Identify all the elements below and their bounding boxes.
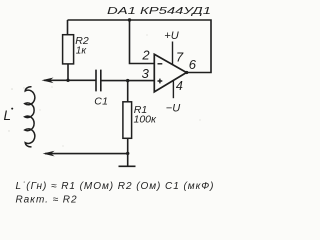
wire: stub from pin3 node down to R1 top [127,81,129,102]
op-amp plus input marker [158,79,163,84]
wire: stub below R1 to bottom terminal line [127,138,129,153]
node junction pin3/R1 [126,79,129,82]
svg-text:6: 6 [189,57,197,72]
svg-text:1к: 1к [76,45,88,56]
svg-text:2: 2 [141,47,150,62]
svg-text:C1: C1 [94,95,108,107]
svg-text:DA1 КР544УД1: DA1 КР544УД1 [107,5,211,17]
svg-text:Rакт. ≈ R2: Rакт. ≈ R2 [16,195,77,205]
svg-text:7: 7 [176,49,184,64]
pin 7 line [172,42,174,65]
wire: bottom terminal line from arrow to R1 bottom node [45,153,128,155]
terminal arrow upper [42,78,54,84]
resistor R1 [123,102,132,139]
wire: stub below R2 to upper terminal line [67,64,69,80]
resistor R2 [63,35,74,64]
wire: stub from top wire down to R2 top [67,20,69,35]
node junction top wire [128,18,131,21]
ground [119,153,136,166]
node junction R2 bottom [66,79,69,82]
svg-text:4: 4 [176,79,183,93]
svg-text:L: L [4,108,12,123]
wire: top feedback from R2 top to right side down to output [68,20,212,73]
svg-text:100к: 100к [134,114,158,126]
op-amp minus input marker [158,63,163,65]
pin 4 line [172,81,174,99]
wire: from C1 right plate to non-inverting input pin 3 [101,80,155,82]
svg-text:L˙(Гн) ≈ R1 (МОм) R2 (Ом) С1 (: L˙(Гн) ≈ R1 (МОм) R2 (Ом) С1 (мкФ) [16,181,214,192]
inductor L coil symbol [25,87,35,147]
op-amp U1 triangle [154,54,186,92]
node output apex [185,71,188,74]
svg-text:+U: +U [164,30,178,42]
node junction R1 bottom [126,152,129,155]
svg-text:−U: −U [166,103,180,115]
terminal arrow lower [43,151,55,157]
capacitor C1 [96,70,101,92]
svg-text:3: 3 [142,66,150,81]
wire: upper terminal line from arrow to C1 left plate [44,79,96,81]
wire: branch from top wire down to inverting input pin 2 [130,20,155,64]
